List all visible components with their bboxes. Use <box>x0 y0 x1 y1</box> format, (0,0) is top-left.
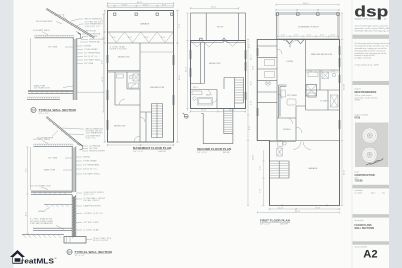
svg-text:ARCH. SHINGLES: ARCH. SHINGLES <box>85 18 103 21</box>
ws2 ceiling insulation loops <box>34 144 74 145</box>
ws2 left dimension line <box>26 147 28 234</box>
svg-text:10'-0": 10'-0" <box>122 4 128 6</box>
svg-text:3'-2": 3'-2" <box>249 44 251 48</box>
svg-text:2x6 @ 16" O.C.: 2x6 @ 16" O.C. <box>84 56 99 58</box>
first top wall door V notches <box>286 40 304 44</box>
svg-text:4" CONC. SLAB: 4" CONC. SLAB <box>84 228 100 231</box>
basement mid wall <box>139 43 141 142</box>
ws2 wall verticals upper <box>72 147 76 193</box>
svg-text:10'-0": 10'-0" <box>143 4 149 6</box>
ceiling fan diamond <box>265 80 271 86</box>
svg-text:A2: A2 <box>363 249 377 261</box>
rear door arcs <box>287 118 302 133</box>
svg-text:10'-4": 10'-4" <box>278 207 284 209</box>
ws2 earth hatch bottom <box>23 235 61 238</box>
svg-text:VENTED SOFFIT: VENTED SOFFIT <box>89 151 106 153</box>
basement garage/house wall <box>108 32 174 43</box>
svg-text:5/8" GWB: 5/8" GWB <box>48 47 58 49</box>
porch posts <box>276 13 279 16</box>
basement bottom dimension line <box>107 144 175 146</box>
ws2 section label circle <box>67 249 72 254</box>
svg-text:889 SF: 889 SF <box>223 152 230 154</box>
svg-text:34'-0": 34'-0" <box>295 211 301 213</box>
svg-text:R-30 BATT INSUL.: R-30 BATT INSUL. <box>33 29 51 32</box>
svg-text:12'-4": 12'-4" <box>251 54 253 60</box>
second plan roof deck <box>191 13 246 41</box>
svg-text:R-30 BATT INSUL.: R-30 BATT INSUL. <box>33 138 51 141</box>
hall walls mid <box>277 103 306 141</box>
left gray margin strip <box>0 0 14 268</box>
master bath dim row <box>306 71 340 73</box>
svg-text:8'-0": 8'-0" <box>161 37 165 39</box>
svg-text:5'-0": 5'-0" <box>281 35 285 37</box>
svg-text:17'-8": 17'-8" <box>315 207 321 209</box>
basement roof overhang line <box>108 7 174 9</box>
second plan outer wall <box>191 41 246 109</box>
svg-text:CDX SHEATHING: CDX SHEATHING <box>86 132 103 135</box>
svg-text:reatMLS: reatMLS <box>21 256 54 265</box>
second exterior stair rails <box>224 109 233 144</box>
svg-text:designers of fine archit: designers of fine architecture <box>355 18 379 21</box>
svg-text:5'-0": 5'-0" <box>307 35 311 37</box>
ws2 slab lines <box>33 228 72 230</box>
svg-text:2x10 @ 16" O.C.: 2x10 @ 16" O.C. <box>85 26 101 28</box>
svg-text:CDX SHEATHING: CDX SHEATHING <box>85 22 102 25</box>
svg-text:8'-6": 8'-6" <box>249 126 251 130</box>
ws2 roof diagonal <box>46 116 81 145</box>
svg-text:desc: desc <box>371 193 375 195</box>
gray bar revisions <box>353 185 390 189</box>
svg-text:0718: 0718 <box>355 117 361 120</box>
svg-text:9'-1": 9'-1" <box>101 60 103 64</box>
ws1 floor band <box>28 90 73 93</box>
ws2 wall labels right upper <box>76 157 82 174</box>
svg-text:BATH: BATH <box>206 94 212 97</box>
svg-text:5'-8": 5'-8" <box>331 70 335 72</box>
screened porch <box>277 13 340 39</box>
basement outer wall <box>108 11 174 143</box>
svg-text:3/4" SUBFLOOR: 3/4" SUBFLOOR <box>34 88 50 90</box>
svg-text:#4 VERT. @ 32" O.C.: #4 VERT. @ 32" O.C. <box>84 213 104 215</box>
basement top segment dimension line <box>107 5 175 7</box>
basement truss V marks <box>109 33 174 43</box>
svg-text:29609: 29609 <box>355 100 362 102</box>
seal 2 <box>362 147 377 162</box>
svg-text:5/8" GWB: 5/8" GWB <box>48 158 58 160</box>
basement bath fixtures <box>117 74 124 78</box>
ws1 ceiling line <box>35 37 75 39</box>
ws1 roof hatch ticks <box>51 12 88 35</box>
ws1 section label circle <box>31 107 36 112</box>
gray bar sheet title <box>353 214 390 217</box>
svg-text:BASEMENT FLOOR PLAN: BASEMENT FLOOR PLAN <box>133 146 172 150</box>
signature <box>366 159 383 166</box>
left closet column <box>257 40 277 103</box>
ws1 interior room line <box>30 38 32 91</box>
svg-text:5/8" GWB: 5/8" GWB <box>84 63 94 65</box>
svg-text:1/4" = 1'-0": 1/4" = 1'-0" <box>197 152 207 154</box>
svg-text:TYVEK WRAP: TYVEK WRAP <box>84 48 98 51</box>
svg-text:R-19 BATT INSUL.: R-19 BATT INSUL. <box>83 173 101 176</box>
basement bath door arcs <box>119 84 136 105</box>
svg-text:1/2" = 1'-0": 1/2" = 1'-0" <box>39 113 49 115</box>
svg-text:8'-0": 8'-0" <box>112 37 116 39</box>
garage bottom door jambs <box>282 205 327 207</box>
garage door opening marks <box>293 142 311 150</box>
basement stair rungs <box>152 106 163 134</box>
ws1 rafter label left <box>56 22 62 25</box>
ws1 lower insulation loops <box>27 97 60 98</box>
second wic wall <box>191 84 218 109</box>
svg-text:7'-0": 7'-0" <box>102 20 104 24</box>
basement window ticks <box>107 55 174 130</box>
svg-text:1/4" = 1'-0": 1/4" = 1'-0" <box>260 224 270 226</box>
svg-text:ROOF RAFTERS: ROOF RAFTERS <box>36 20 53 23</box>
basement beam line <box>140 51 174 53</box>
svg-text:A2: A2 <box>32 111 34 114</box>
ws1 eave labels right <box>80 34 88 42</box>
svg-text:© dsp architects inc. 2008: © dsp architects inc. 2008 <box>355 63 380 66</box>
ws1 ceiling insulation loops <box>35 35 75 36</box>
svg-text:MEDIA ROOM: MEDIA ROOM <box>150 86 164 89</box>
svg-text:DAMPPROOFING: DAMPPROOFING <box>84 204 101 207</box>
svg-text:GUTTER: GUTTER <box>89 36 98 38</box>
svg-text:24'-0": 24'-0" <box>211 7 217 9</box>
svg-text:CONSTRUCTION: CONSTRUCTION <box>355 174 375 177</box>
svg-text:W/ (2) #4 CONT.: W/ (2) #4 CONT. <box>93 240 109 242</box>
svg-text:10'-0": 10'-0" <box>253 154 255 160</box>
svg-text:revisions: revisions <box>355 189 363 192</box>
svg-text:M. BATH: M. BATH <box>321 100 330 103</box>
first window ticks <box>257 46 340 129</box>
svg-text:4'-0": 4'-0" <box>331 35 335 37</box>
ws2 roof hatch ticks <box>49 120 78 145</box>
seal box <box>355 123 389 168</box>
svg-text:5'-0": 5'-0" <box>309 70 313 72</box>
svg-text:DINING: DINING <box>283 129 291 131</box>
second interior stair <box>235 78 244 104</box>
closet shelf rects <box>265 60 275 66</box>
svg-text:BEDROOM: BEDROOM <box>209 63 220 65</box>
svg-text:R-19 BATT INSUL.: R-19 BATT INSUL. <box>84 59 102 62</box>
svg-text:ROOF: ROOF <box>217 27 224 29</box>
first top wall door openings <box>283 40 297 47</box>
svg-text:BASE TRIM: BASE TRIM <box>44 169 55 172</box>
svg-text:DRIP EDGE: DRIP EDGE <box>85 30 97 32</box>
svg-text:3/4" T&G SUBFLOOR: 3/4" T&G SUBFLOOR <box>30 185 51 187</box>
ws2 rafter label left <box>52 131 58 137</box>
first right dimension line <box>341 13 343 206</box>
second landing deck <box>201 113 233 143</box>
first plan outer wall <box>257 40 339 206</box>
ws2 ceiling label <box>42 141 48 144</box>
svg-text:1080 SF: 1080 SF <box>158 151 167 153</box>
gray bar 1 <box>353 35 390 39</box>
svg-text:8'-0": 8'-0" <box>145 37 149 39</box>
ws1 ceiling label <box>42 32 48 36</box>
svg-text:14'-0": 14'-0" <box>229 110 235 112</box>
svg-text:6'-2": 6'-2" <box>251 81 253 85</box>
svg-text:5'-0": 5'-0" <box>253 66 255 70</box>
svg-text:33'-0": 33'-0" <box>179 74 181 80</box>
second window ticks <box>190 50 246 100</box>
svg-text:34'-8": 34'-8" <box>137 2 143 4</box>
closet door arcs <box>277 49 282 99</box>
kitchen counters <box>279 85 287 118</box>
svg-text:greenville, south carolina 296: greenville, south carolina 29601 p 864 <box>355 27 391 30</box>
svg-text:21'-8": 21'-8" <box>344 169 346 175</box>
svg-text:inc: inc <box>384 19 386 21</box>
svg-text:SCREENED PORCH: SCREENED PORCH <box>298 27 319 29</box>
svg-text:WALL SECTIONS: WALL SECTIONS <box>355 227 375 230</box>
svg-text:5'-0": 5'-0" <box>320 35 324 37</box>
master suite wall <box>306 40 340 71</box>
svg-text:W.I.C.: W.I.C. <box>193 87 199 89</box>
ws1 floor leader right <box>77 91 104 93</box>
svg-text:1/2" EXP. JOINT: 1/2" EXP. JOINT <box>84 222 100 224</box>
ws2 foundation hatch <box>72 196 76 238</box>
second plan left dimension line <box>186 13 188 111</box>
svg-text:8'-0": 8'-0" <box>128 37 132 39</box>
ws2 footing <box>64 237 86 244</box>
basement garage posts <box>114 13 116 15</box>
first left dimension line <box>247 40 249 206</box>
svg-text:1618 SF: 1618 SF <box>280 224 289 226</box>
basement stair rails <box>152 104 163 138</box>
svg-text:no. date: no. date <box>355 192 363 195</box>
basement right dimension line <box>176 10 178 143</box>
second stair wall <box>224 78 235 109</box>
first bottom dimension lines <box>269 208 341 210</box>
svg-text:FILL ALL CELLS: FILL ALL CELLS <box>84 199 100 202</box>
svg-text:26'-0": 26'-0" <box>303 3 309 5</box>
svg-text:SIDING: SIDING <box>83 157 91 159</box>
svg-text:all rights reserved.: all rights reserved. <box>355 57 372 60</box>
first lower-left dim line <box>262 150 264 206</box>
ws2 floor band <box>31 191 72 195</box>
svg-text:KITCHEN: KITCHEN <box>287 95 297 97</box>
svg-text:MASTER BEDROOM: MASTER BEDROOM <box>311 53 332 56</box>
seal 1 <box>362 128 377 143</box>
roof deck post <box>200 38 203 41</box>
first stair grid <box>270 161 290 178</box>
ws1 roof diagonal <box>46 8 95 38</box>
basement bedroom wall <box>108 71 141 72</box>
svg-text:TYPICAL WALL SECTION: TYPICAL WALL SECTION <box>39 108 77 112</box>
basement bath walls <box>115 72 140 105</box>
svg-text:SLOPE TO DOOR: SLOPE TO DOOR <box>110 49 128 51</box>
svg-text:SECOND FLOOR PLAN: SECOND FLOOR PLAN <box>197 147 232 151</box>
basement door arcs lower <box>134 117 145 142</box>
ws2 eave fascia detail <box>79 143 83 150</box>
central stair X box <box>306 85 317 97</box>
svg-text:BEDROOM: BEDROOM <box>118 57 129 59</box>
svg-text:9'-0": 9'-0" <box>179 24 181 28</box>
svg-text:1/2" SHEATHING: 1/2" SHEATHING <box>84 52 101 55</box>
svg-text:4'-0": 4'-0" <box>260 166 262 170</box>
svg-text:TYVEK WRAP: TYVEK WRAP <box>83 160 97 163</box>
svg-text:9'-1": 9'-1" <box>25 168 27 172</box>
right gray margin strip <box>389 0 402 268</box>
porch interior dimension row <box>277 35 339 37</box>
basement stair wall <box>152 104 163 138</box>
svg-text:33'-10": 33'-10" <box>344 83 346 90</box>
second closet V marks <box>191 41 238 47</box>
svg-text:7'-0": 7'-0" <box>260 189 262 193</box>
first plan top overall dimension <box>276 4 339 6</box>
svg-text:NEW RESIDENCE: NEW RESIDENCE <box>355 90 377 94</box>
svg-text:2x10 @ 16": 2x10 @ 16" <box>54 15 65 17</box>
ws1 wall verticals <box>73 38 77 100</box>
master bath walls <box>306 70 340 110</box>
ws1 eave fascia detail <box>77 32 84 40</box>
svg-text:6 MIL VAPOR BARRIER: 6 MIL VAPOR BARRIER <box>30 222 53 225</box>
ws2 foundation labels right <box>76 199 82 230</box>
second bath fixtures <box>192 91 202 95</box>
svg-text:sheet title: sheet title <box>355 219 365 222</box>
svg-text:12 east washington street, sui: 12 east washington street, suite 201 <box>355 24 389 27</box>
svg-text:BEDROOM: BEDROOM <box>114 126 125 128</box>
gray bar sheet number <box>353 241 390 244</box>
second plan top dimension line <box>190 7 240 9</box>
second exterior stair rungs <box>224 111 233 132</box>
svg-text:24'-0": 24'-0" <box>185 66 187 72</box>
title block separator line <box>351 0 353 268</box>
svg-text:1/2" = 1'-0": 1/2" = 1'-0" <box>75 255 85 257</box>
ws2 grade line left <box>44 204 72 206</box>
second top wall door notch <box>222 38 226 40</box>
ws1 sheathing label <box>63 16 67 20</box>
ws1 wall labels left <box>63 47 73 88</box>
svg-text:6'-0": 6'-0" <box>320 70 324 72</box>
garage wall <box>270 141 340 142</box>
svg-text:A2: A2 <box>68 253 70 256</box>
svg-text:™: ™ <box>54 258 57 261</box>
second bath door arcs <box>206 90 217 103</box>
svg-text:8'-0": 8'-0" <box>162 4 166 6</box>
ws2 rim label right <box>76 192 82 194</box>
second section cut marker <box>184 114 188 118</box>
svg-text:GARAGE: GARAGE <box>308 167 318 170</box>
svg-text:@ 16" O.C.: @ 16" O.C. <box>86 137 97 139</box>
ws2 floor label left <box>41 187 48 190</box>
ws1 floor joist ticks <box>32 91 67 93</box>
ws2 interior room line <box>30 147 32 190</box>
svg-text:8'-0": 8'-0" <box>25 212 27 216</box>
ws2 grade label <box>45 208 50 211</box>
first plan porch dimension line <box>275 9 340 11</box>
svg-text:14'-0": 14'-0" <box>201 110 207 112</box>
second hall verticals <box>201 43 205 84</box>
svg-text:42'-0": 42'-0" <box>102 76 104 82</box>
disclaimer paragraph <box>355 42 391 66</box>
svg-text:SIDING: SIDING <box>84 46 92 48</box>
watermark house icon <box>10 250 25 264</box>
ws1 roof label upper right <box>71 19 83 21</box>
svg-text:TYPICAL WALL SECTION: TYPICAL WALL SECTION <box>75 250 113 254</box>
powder room fixtures <box>278 141 283 147</box>
ws2 floor joist ticks <box>35 192 65 194</box>
gray bar 2 <box>353 81 390 85</box>
svg-text:5'-0": 5'-0" <box>294 35 298 37</box>
second interior ceiling line <box>191 40 246 42</box>
svg-text:LIVING: LIVING <box>286 61 293 63</box>
ws2 wall labels left upper <box>63 158 72 170</box>
ws2 foundation wall <box>72 195 76 237</box>
svg-text:1/2" SHEATHING: 1/2" SHEATHING <box>83 164 100 167</box>
roof deck divider <box>206 13 238 41</box>
ws2 ceiling line <box>34 146 74 148</box>
svg-text:GARAGE: GARAGE <box>140 23 150 26</box>
basement lower walls <box>140 112 152 142</box>
master bath fixtures <box>308 72 318 77</box>
ws1 wall labels right <box>77 46 83 64</box>
basement left dimension line <box>104 10 106 143</box>
svg-text:FRIEZE BD.: FRIEZE BD. <box>89 42 101 44</box>
ws2 roof labels right <box>62 128 84 135</box>
basement top overall dimension line <box>107 2 175 4</box>
svg-text:1/4" = 1'-0": 1/4" = 1'-0" <box>133 151 143 153</box>
svg-text:GRADE: GRADE <box>38 210 46 213</box>
ws1 right dimension line <box>102 14 104 112</box>
second bottom dimension line <box>190 110 247 112</box>
svg-text:2x6 @ 16" O.C.: 2x6 @ 16" O.C. <box>83 169 98 171</box>
svg-text:FIRST FLOOR PLAN: FIRST FLOOR PLAN <box>260 219 291 223</box>
ws2 eave labels right <box>82 146 88 151</box>
svg-text:@ 16" O.C.: @ 16" O.C. <box>84 194 95 196</box>
svg-text:4'-6": 4'-6" <box>251 101 253 105</box>
svg-text:7/21/08: 7/21/08 <box>355 180 364 183</box>
svg-text:232.8200 f 864.232.7300 dspe: 232.8200 f 864.232.7300 dspeng.com <box>355 31 390 33</box>
